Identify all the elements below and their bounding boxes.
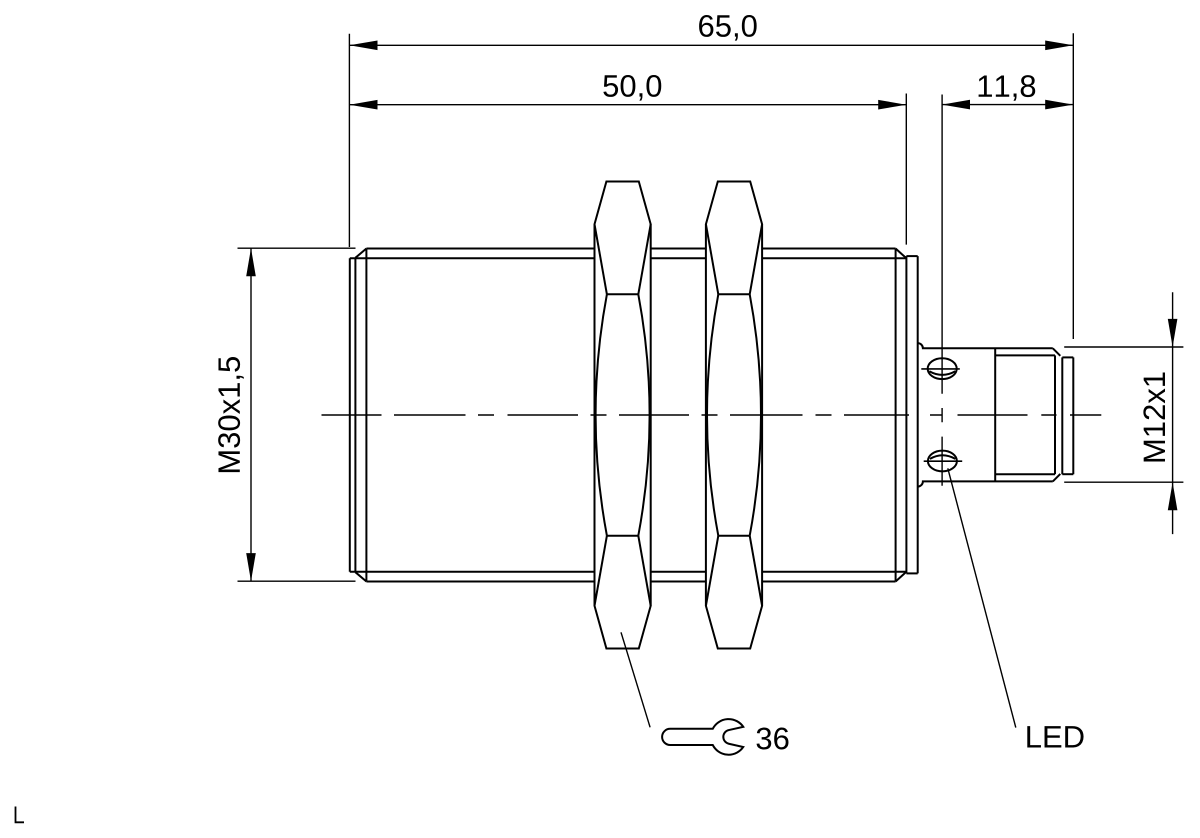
barrel left chamfer edge vertical: [365, 249, 367, 582]
barrel left bottom chamfer: [355, 572, 366, 581]
dimension M30x1,5: [238, 248, 356, 581]
barrel bottom edge: [366, 581, 895, 583]
LED indicator top: [921, 358, 960, 379]
barrel right top chamfer: [896, 249, 907, 259]
barrel left end face line 1: [349, 258, 351, 571]
barrel left end face line 2: [354, 258, 356, 572]
arrow M12 bottom: [1168, 482, 1178, 510]
leader line LED: [948, 468, 1016, 727]
arrow M30 top: [246, 248, 256, 276]
label M12x1: [1143, 372, 1165, 461]
arrow M30 bottom: [246, 553, 256, 581]
hex nut 2: [706, 182, 762, 649]
arrow 65,0 left: [349, 41, 377, 51]
main centerline horizontal: [322, 414, 1102, 416]
arrow M12 top: [1168, 319, 1178, 347]
extension line left: [348, 34, 350, 247]
label 36: [757, 728, 789, 750]
leader line wrench size: [621, 632, 650, 727]
barrel thread root top line: [350, 257, 906, 259]
label 11,8: [979, 75, 1036, 101]
LED vertical centerline / 11,8 extension line: [941, 95, 943, 486]
extension line right: [1072, 33, 1074, 339]
label 50,0: [603, 75, 661, 101]
label LED: [1027, 726, 1083, 747]
arrow 11,8 right: [1045, 100, 1073, 110]
sensor barrel M30 body: [350, 249, 907, 582]
label 65,0: [699, 15, 757, 41]
end cap washer: [906, 256, 917, 573]
barrel left top chamfer: [355, 249, 366, 258]
connector housing with LED flange: [918, 343, 1053, 487]
dimension M12x1: [1064, 292, 1183, 534]
arrow 50,0 right: [878, 100, 906, 110]
arrow 50,0 left: [349, 100, 377, 110]
label M30x1,5: [218, 357, 244, 472]
M12 thread part: [995, 348, 1060, 481]
dimension 50,0: [349, 94, 906, 245]
barrel top edge: [366, 248, 895, 250]
barrel thread root bottom line: [350, 571, 906, 573]
corner mark L: [16, 807, 25, 823]
arrow 65,0 right: [1045, 41, 1073, 51]
barrel right end face vertical: [905, 256, 907, 573]
hex nut 1: [595, 182, 651, 649]
arrow 11,8 left: [942, 100, 970, 110]
dim line: [349, 44, 1073, 46]
dimension 11,8: [942, 104, 1073, 106]
dimension 65,0: [349, 33, 1073, 339]
connector tip: [1062, 357, 1073, 474]
barrel right bottom chamfer: [896, 572, 907, 582]
LED indicator bottom: [924, 451, 963, 472]
barrel right chamfer edge vertical: [895, 249, 897, 582]
wrench symbol: [662, 719, 743, 755]
